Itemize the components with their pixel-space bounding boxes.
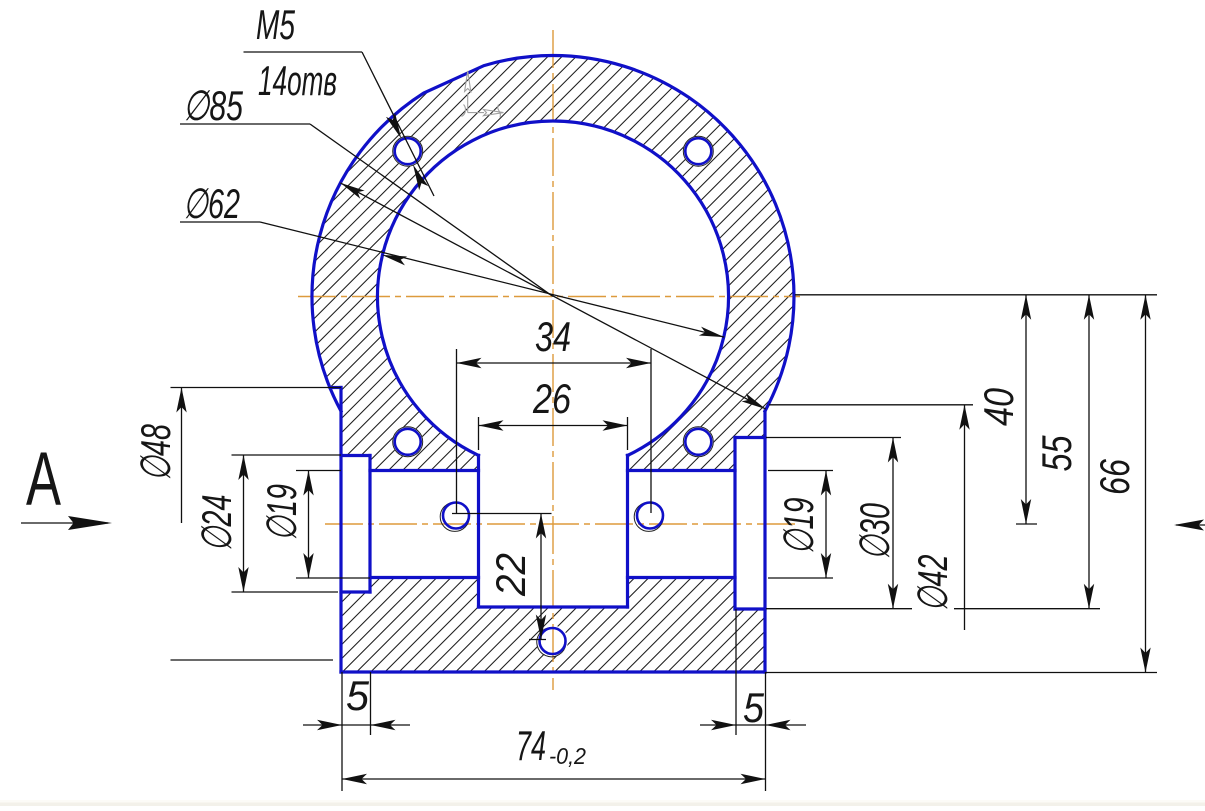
left bore top <box>370 469 479 472</box>
ext line 34 left <box>456 349 458 513</box>
dim line 74 <box>342 778 766 780</box>
arrow 34 left <box>457 358 482 368</box>
arrow 74 left <box>342 774 367 784</box>
thread circles (M5 holes) <box>393 136 714 657</box>
dim line phi42 <box>964 405 966 630</box>
left counterbore top <box>341 454 370 457</box>
dim line 5R <box>700 724 806 726</box>
slot right wall <box>626 455 629 607</box>
ext line 26 right <box>627 417 629 450</box>
right bore top <box>628 469 736 472</box>
ext line phi42 top <box>769 404 973 406</box>
ext line phi24 top <box>232 454 342 456</box>
svg-text:∅19: ∅19 <box>775 498 822 555</box>
arrow phi62 left <box>381 250 407 265</box>
arrow 26 right <box>603 420 628 430</box>
bottom panel strip <box>0 800 1205 803</box>
dim line phi48 <box>181 388 183 524</box>
slot bottom <box>479 605 628 608</box>
ext line phi48 top <box>171 387 342 389</box>
dim line 26 <box>479 425 628 427</box>
svg-text:∅30: ∅30 <box>851 503 898 560</box>
svg-text:74: 74 <box>516 722 546 769</box>
svg-text:14отв: 14отв <box>258 57 337 104</box>
leader M5 line <box>362 52 434 196</box>
arrow phi24 up <box>238 455 248 480</box>
arrow phi30 up <box>888 438 898 463</box>
arrow phi42 up <box>959 405 969 430</box>
arrow M5 upper <box>386 113 406 141</box>
arrow 5R left-head <box>711 720 736 730</box>
dim line 40 <box>1025 295 1027 524</box>
arrow 55 up <box>1084 295 1094 320</box>
ext line phi19L top <box>296 470 341 472</box>
dim line phi19R <box>825 471 827 579</box>
svg-text:∅24: ∅24 <box>193 495 240 552</box>
ext line 5R left <box>735 609 737 735</box>
arrow 34 right <box>626 358 651 368</box>
arrow 22 down <box>536 615 546 640</box>
M5 hole lower-left <box>395 429 421 455</box>
vertical centerline <box>552 30 554 690</box>
arrow 66 down <box>1140 648 1150 673</box>
right bore bottom <box>628 576 736 579</box>
view arrow right line <box>1176 524 1205 526</box>
ext line phi30 top <box>766 437 901 439</box>
right counterbore bottom <box>735 607 765 610</box>
leader phi85 shelf <box>180 123 310 125</box>
arrow 74 right <box>741 774 766 784</box>
svg-text:40: 40 <box>975 387 1022 426</box>
svg-text:∅62: ∅62 <box>183 180 240 227</box>
arrow phi19L up <box>303 471 313 496</box>
dim line 22 <box>540 514 542 640</box>
ext line 5L right <box>370 672 372 735</box>
M5 hole right-side <box>637 503 663 529</box>
ext line phi19R bottom <box>768 577 833 579</box>
arrow phi30 down <box>888 584 898 609</box>
phi85 diameter line <box>340 183 765 409</box>
arrow phi19L down <box>303 553 313 578</box>
outer ring arc with flat <box>312 56 794 412</box>
arrow 22 up <box>536 514 546 539</box>
view arrow right head <box>1174 520 1204 531</box>
dim line phi19L <box>308 471 310 579</box>
right counterbore top <box>735 436 765 439</box>
svg-text:∅42: ∅42 <box>909 555 956 612</box>
ext line phi24 bottom <box>232 591 339 593</box>
arrow 5L right-head <box>371 720 396 730</box>
arrow phi19R down <box>821 553 831 578</box>
arrow 5L left-head <box>317 720 342 730</box>
svg-text:22: 22 <box>487 553 534 597</box>
dim line 34 <box>457 362 652 364</box>
dim line 55 <box>1088 295 1090 609</box>
leader phi85 to center <box>310 124 553 297</box>
leader phi62 shelf <box>180 221 260 223</box>
ref line 22 top <box>452 513 552 515</box>
left face <box>339 388 342 673</box>
ext line ring axis right <box>795 294 1157 296</box>
left bore bottom <box>370 576 479 579</box>
arrow phi19R up <box>821 471 831 496</box>
M5 hole bottom <box>540 628 566 654</box>
dim line phi30 <box>892 438 894 609</box>
left counterbore bottom <box>341 590 370 593</box>
dim line phi24 <box>243 455 245 592</box>
svg-text:34: 34 <box>535 313 571 360</box>
svg-text:∅19: ∅19 <box>258 484 305 541</box>
svg-text:26: 26 <box>532 375 571 422</box>
arrow 66 up <box>1140 295 1150 320</box>
ext line phi19R top <box>768 470 833 472</box>
ext line phi48 bottom <box>171 659 334 661</box>
arrow 55 down <box>1084 584 1094 609</box>
M5 hole upper-right <box>685 138 711 164</box>
arrow phi24 down <box>238 567 248 592</box>
M5 hole left-side <box>443 503 469 529</box>
arrow 26 left <box>479 420 504 430</box>
bore horizontal centerline <box>325 523 800 525</box>
view arrow A line <box>21 522 108 524</box>
M5 hole upper-left <box>395 138 421 164</box>
svg-text:-0,2: -0,2 <box>549 743 586 769</box>
dim line 5L <box>303 724 410 726</box>
ext line phi19L bottom <box>296 577 370 579</box>
svg-text:5: 5 <box>346 672 370 719</box>
ext line 34 right <box>650 349 652 513</box>
ext line 74 left <box>341 672 343 791</box>
leader M5 shelf <box>244 51 363 53</box>
ext line 26 left <box>478 417 480 450</box>
left flange top edge <box>330 386 341 389</box>
left counterbore step <box>368 456 371 593</box>
arrow 40 up <box>1021 295 1031 320</box>
ext line 74 right <box>765 672 767 791</box>
arrow phi48 up <box>176 388 186 413</box>
ref line 22 bottom <box>529 639 546 641</box>
arrow 40 down <box>1021 499 1031 524</box>
svg-text:66: 66 <box>1091 459 1138 495</box>
phi62 diameter line <box>260 222 724 337</box>
bottom edge <box>341 670 765 673</box>
svg-text:M5: M5 <box>256 1 295 48</box>
svg-text:∅85: ∅85 <box>183 82 243 129</box>
inner bore arc <box>378 121 729 455</box>
arrow M5 lower <box>408 162 428 190</box>
ring horizontal centerline <box>298 296 800 298</box>
gray datum axes symbol <box>462 71 504 118</box>
svg-text:5: 5 <box>743 684 765 731</box>
view arrow A head <box>68 516 112 530</box>
ext line body bottom right <box>766 672 1157 674</box>
slot left wall <box>477 455 480 607</box>
svg-text:55: 55 <box>1033 435 1080 471</box>
arrow 5R right-head <box>766 720 791 730</box>
arrow phi85 lower-right <box>742 393 768 413</box>
arrow phi85 upper-left <box>338 179 364 199</box>
M5 hole lower-right <box>685 429 711 455</box>
svg-text:∅48: ∅48 <box>132 424 179 481</box>
terminator 40 bottom <box>1016 523 1037 525</box>
svg-text:A: A <box>26 437 61 522</box>
dim line 66 <box>1145 295 1147 673</box>
ext line step right <box>766 608 1100 610</box>
right face <box>763 411 766 672</box>
right counterbore step <box>733 438 736 610</box>
arrow phi62 right <box>699 327 725 342</box>
